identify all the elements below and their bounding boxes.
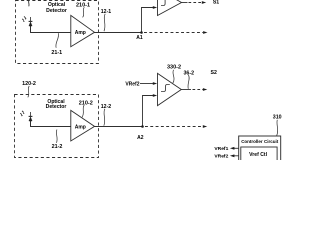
arrowhead dashed arrow from A1: [203, 31, 207, 34]
leader squiggle 21-1: [56, 33, 59, 48]
wire dashed from node A1: [144, 32, 203, 34]
svg-text:210-2: 210-2: [79, 101, 93, 107]
wire photodiode 21-2 to amp 210-2: [31, 121, 71, 127]
arrowhead into comparator 330-2 lower input: [153, 94, 157, 97]
wire dashed from node A2: [145, 126, 203, 128]
svg-text:S1: S1: [213, 0, 219, 6]
arrowhead into comparator U1 lower input: [153, 6, 157, 9]
svg-text:21-1: 21-1: [51, 50, 62, 56]
node A1 junction dot: [140, 31, 143, 34]
wire node A2 riser to comparator 330-2 input: [143, 96, 154, 127]
leader squiggle 120-1 (cropped): [28, 0, 30, 6]
comparator 330-2: [158, 73, 182, 105]
leader squiggle 310: [277, 120, 278, 136]
arrowhead dashed arrow from A2: [203, 125, 207, 128]
leader squiggle 210-2: [82, 105, 84, 117]
arrowhead S1 output: [202, 1, 206, 4]
photodiode 21-1: [29, 17, 33, 32]
hysteresis symbol in comparator 330-2: [161, 85, 170, 92]
arrowhead S2 output: [203, 88, 207, 91]
op-amp 210-1: [71, 15, 95, 46]
svg-text:12-1: 12-1: [101, 9, 111, 15]
leader squiggle 330-2: [173, 70, 174, 83]
svg-text:21-2: 21-2: [52, 144, 63, 150]
wire node A1 riser to comparator input: [142, 8, 154, 33]
svg-text:210-1: 210-1: [76, 2, 90, 8]
controller circuit box 310: [239, 136, 281, 163]
svg-text:VRef2: VRef2: [214, 153, 228, 159]
op-amp 210-2: [71, 110, 95, 141]
comparator U1 output wire S1: [181, 2, 187, 4]
svg-text:Amp: Amp: [75, 30, 86, 36]
wire amp 210-1 output to node A1: [94, 32, 142, 34]
wire VRef2 to comparator 330-2: [140, 83, 153, 85]
leader squiggle 36-2: [188, 75, 189, 89]
leader squiggle 12-1: [104, 14, 105, 31]
wire VRef2 from controller circuit: [234, 155, 239, 157]
leader squiggle 12-2: [104, 109, 105, 126]
svg-text:Controller Circuit: Controller Circuit: [241, 139, 279, 144]
wire amp 210-2 output to node A2: [94, 126, 143, 128]
comparator U1 output dashed wire: [189, 2, 202, 4]
svg-text:VRef2: VRef2: [125, 81, 139, 87]
svg-text:120-2: 120-2: [22, 81, 36, 87]
svg-text:Detector: Detector: [46, 104, 67, 110]
svg-text:12-2: 12-2: [101, 104, 111, 110]
arrowhead into comparator 330-2 upper input: [153, 82, 157, 85]
svg-text:Vref Ctl: Vref Ctl: [249, 152, 267, 158]
svg-text:VRef1: VRef1: [214, 146, 228, 152]
arrowhead VRef1 (points left): [230, 147, 235, 150]
svg-text:Detector: Detector: [46, 8, 67, 14]
optical detector box 120-1 (dashed, cropped at top): [16, 1, 99, 64]
leader squiggle 21-2: [55, 130, 58, 143]
svg-text:A1: A1: [136, 35, 143, 41]
svg-text:S2: S2: [211, 70, 217, 76]
comparator U1 (cropped at top): [158, 0, 182, 16]
svg-text:Amp: Amp: [75, 124, 86, 130]
comparator 330-2 output dashed wire: [193, 89, 204, 91]
svg-text:310: 310: [273, 115, 282, 121]
svg-text:330-2: 330-2: [167, 65, 181, 71]
comparator 330-2 output wire S2: [181, 89, 191, 91]
wire VRef1 from controller circuit: [234, 147, 239, 149]
arrowhead VRef2 (points left): [230, 154, 235, 157]
light arrows into photodiode 21-1: [22, 16, 26, 22]
wire photodiode 21-1 to amp 210-1: [31, 26, 71, 33]
svg-text:36-2: 36-2: [183, 70, 194, 76]
optical detector box 120-2 (dashed): [15, 95, 99, 158]
hysteresis symbol in comparator U1 (cropped): [161, 0, 169, 6]
light arrows into photodiode 21-2: [20, 111, 24, 117]
photodiode 21-2: [29, 112, 33, 127]
node A2 junction dot: [141, 125, 144, 128]
leader squiggle 210-1: [83, 7, 85, 17]
svg-text:A2: A2: [137, 135, 144, 141]
Vref Ctl box: [241, 147, 277, 163]
leader squiggle 120-2: [28, 86, 29, 97]
